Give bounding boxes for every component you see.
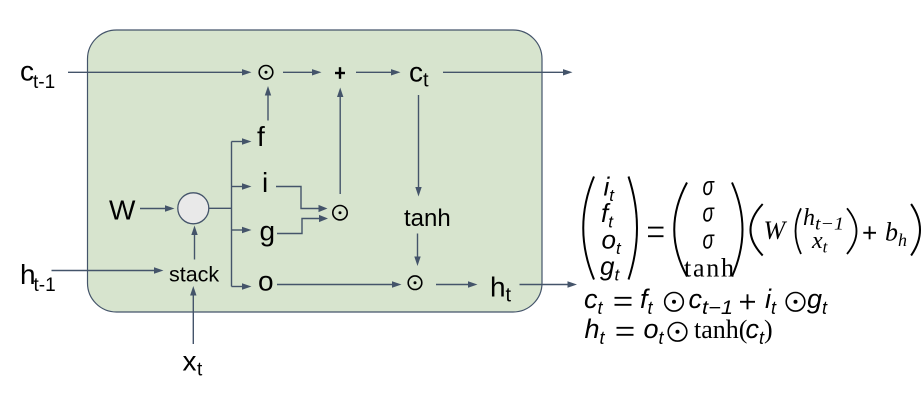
- svg-text:W: W: [764, 216, 788, 245]
- svg-text:t-1: t-1: [33, 72, 55, 93]
- wire h_t output right: [520, 281, 578, 287]
- label h_t-1: [20, 259, 56, 296]
- branch arrow to i: [232, 183, 252, 189]
- equation affine rparen: [911, 204, 920, 256]
- wire f up to odot1: [265, 86, 271, 121]
- sigma circle node: [178, 193, 209, 224]
- wire o to odot3: [277, 281, 402, 287]
- svg-text:ht−1: ht−1: [803, 205, 844, 234]
- svg-text:W: W: [109, 195, 136, 226]
- equation h_t line odot: [668, 323, 687, 342]
- equation gate vector entries: [600, 172, 622, 285]
- svg-text:ot: ot: [644, 314, 665, 348]
- odot operator 1: [259, 66, 273, 80]
- wire odot2 up to plus: [337, 88, 343, 195]
- svg-text:ht: ht: [585, 314, 606, 348]
- equation affine lparen: [751, 204, 763, 256]
- svg-text:c: c: [409, 57, 423, 88]
- equation activation vector lparen: [674, 183, 687, 277]
- svg-text:): ): [764, 315, 773, 344]
- wire g elbow to odot2: [277, 215, 328, 234]
- wire W to sigma circle: [140, 205, 175, 211]
- equation gate vector rparen: [629, 177, 638, 280]
- svg-text:tanh: tanh: [404, 205, 451, 232]
- wire i elbow to odot2: [276, 187, 328, 213]
- svg-text:σ: σ: [703, 224, 715, 254]
- svg-text:bh: bh: [885, 217, 907, 250]
- svg-text:σ: σ: [703, 171, 715, 201]
- wire h_t-1 to stack: [52, 267, 164, 273]
- svg-text:ct: ct: [746, 314, 766, 348]
- wire circle to gate bus: [209, 207, 232, 209]
- equation plus b_h: [863, 226, 876, 239]
- wire x_t up to stack: [190, 286, 196, 344]
- wire odot3 to h_t: [436, 281, 478, 287]
- equation c_t line odot2: [786, 293, 805, 312]
- equation c_t line: [584, 284, 828, 319]
- svg-text:t: t: [423, 70, 429, 92]
- plus operator: [335, 67, 345, 79]
- wire c_t down to tanh: [415, 95, 421, 197]
- equation c_t line equals: [615, 298, 632, 305]
- svg-text:tanh(: tanh(: [694, 315, 747, 344]
- svg-text:t-1: t-1: [34, 275, 56, 296]
- label x_t: [183, 346, 204, 381]
- label c_t-1: [20, 56, 55, 94]
- svg-text:ft: ft: [640, 284, 654, 318]
- branch arrow to g: [232, 227, 252, 233]
- svg-text:h: h: [490, 272, 506, 303]
- odot operator 3: [408, 276, 422, 290]
- svg-text:ct−1: ct−1: [689, 284, 734, 319]
- wire tanh down to odot3: [414, 234, 420, 267]
- svg-text:ct: ct: [584, 284, 604, 318]
- svg-text:t: t: [197, 360, 203, 381]
- equation h_t line equals: [617, 328, 634, 335]
- wire plus to c_t: [356, 69, 401, 75]
- svg-text:f: f: [257, 121, 265, 152]
- svg-text:t: t: [506, 285, 512, 307]
- equation equals sign: [648, 228, 664, 237]
- wire odot1 to plus: [283, 69, 322, 75]
- equation gate vector lparen: [583, 177, 594, 280]
- gate bus vertical: [231, 142, 233, 287]
- equation activation vector entries: [703, 171, 715, 255]
- LSTM cell box: [88, 30, 543, 312]
- branch arrow to f: [232, 138, 252, 144]
- svg-text:i: i: [262, 167, 268, 198]
- label c_t: [409, 57, 429, 92]
- equation inner lparen: [796, 208, 802, 254]
- equation inner rparen: [847, 208, 857, 254]
- branch arrow to o: [232, 283, 252, 289]
- svg-text:it: it: [765, 284, 777, 318]
- svg-text:x: x: [183, 346, 197, 377]
- wire c_t-1 to odot1: [68, 69, 252, 75]
- svg-text:gt: gt: [807, 284, 828, 318]
- svg-text:c: c: [20, 56, 34, 87]
- wire c_t output right: [443, 69, 573, 75]
- equation c_t line odot1: [665, 293, 684, 312]
- wire stack up to circle: [191, 226, 197, 260]
- equation c_t line plus: [740, 294, 755, 309]
- equation h_t line: [585, 314, 766, 348]
- svg-text:tanh: tanh: [684, 254, 734, 283]
- svg-text:stack: stack: [169, 263, 219, 287]
- label h_t: [490, 272, 512, 307]
- svg-text:g: g: [260, 216, 276, 247]
- equation activation vector rparen: [732, 183, 743, 277]
- svg-text:σ: σ: [703, 198, 715, 228]
- odot operator 2: [333, 206, 347, 220]
- svg-text:o: o: [258, 266, 274, 297]
